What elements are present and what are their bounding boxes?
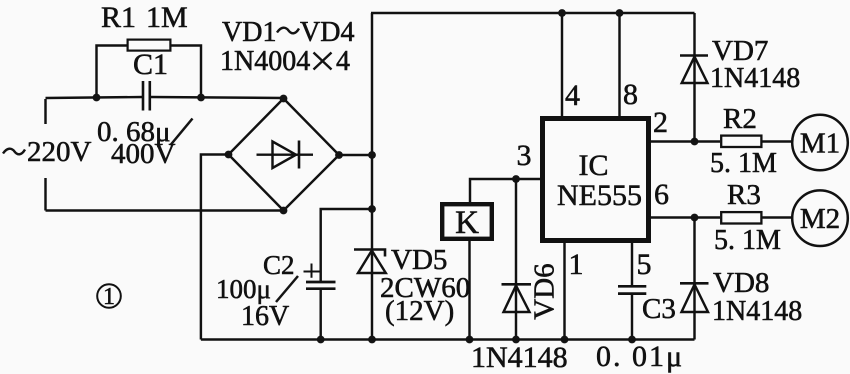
svg-text:1N4148: 1N4148 <box>710 63 800 94</box>
zener diode VD5 triangle <box>358 251 386 274</box>
node C2 at rail <box>317 336 325 344</box>
svg-text:4: 4 <box>565 79 580 112</box>
diode VD7 cathode bar <box>680 54 708 57</box>
wire pin 8 <box>618 13 620 116</box>
svg-text:5. 1M: 5. 1M <box>710 148 777 179</box>
wire ground rail <box>201 338 695 340</box>
bridge inner diode lead <box>257 153 314 155</box>
svg-text:6: 6 <box>654 178 669 211</box>
capacitor C1 <box>143 81 150 111</box>
svg-text:1: 1 <box>569 248 584 281</box>
node main vertical at bridge <box>368 151 376 159</box>
svg-text:M2: M2 <box>800 203 840 235</box>
wire AC bottom to bridge bottom vertex <box>46 209 284 211</box>
node pin 4 at rail <box>558 9 566 17</box>
label multiply sign <box>314 53 332 70</box>
zener diode VD5 cathode bar <box>354 250 385 257</box>
wire main vertical +12V line <box>371 13 373 340</box>
node VD7 at pin2 wire <box>691 138 699 146</box>
resistor R1 <box>128 40 171 51</box>
wire C3 bottom to rail <box>631 295 633 340</box>
svg-text:0. 01μ: 0. 01μ <box>596 340 684 373</box>
wire AC left terminal lower segment <box>44 178 46 211</box>
wire K to ground rail <box>468 239 470 340</box>
motor M1 circle <box>792 115 848 171</box>
wire AC top from left terminal to C1 <box>46 97 144 124</box>
wire pin 5 to C3 <box>631 243 633 285</box>
svg-text:NE555: NE555 <box>557 179 642 212</box>
svg-text:5: 5 <box>637 248 652 281</box>
svg-text:400V: 400V <box>111 138 176 170</box>
svg-text:1N4148: 1N4148 <box>471 341 568 374</box>
node bridge right vertex <box>335 151 343 159</box>
wire pin 6 to R3 <box>648 216 720 218</box>
wire pin 4 <box>561 13 563 116</box>
figure number circle <box>97 284 121 308</box>
svg-text:4: 4 <box>336 46 350 77</box>
switch K box <box>442 204 492 239</box>
label slash of 100u <box>276 276 298 302</box>
svg-text:1N4004: 1N4004 <box>220 46 310 77</box>
svg-text:5. 1M: 5. 1M <box>714 225 781 256</box>
node main vertical at rail <box>368 336 376 344</box>
svg-text:1N4148: 1N4148 <box>712 296 802 327</box>
capacitor C2 plates <box>306 282 336 289</box>
diode VD8 cathode bar <box>680 282 709 285</box>
node junction C1 right <box>197 94 205 102</box>
diode VD6 triangle <box>504 286 530 313</box>
node bridge left vertex <box>225 151 233 159</box>
wire C1 right plate to bridge top vertex <box>150 97 284 98</box>
diode VD8 triangle <box>682 285 709 313</box>
svg-text:1: 1 <box>103 284 115 310</box>
C2 plus sign <box>304 264 320 278</box>
node bridge top vertex <box>280 95 288 103</box>
node VD6 at pin3 wire <box>512 175 520 183</box>
svg-text:R2: R2 <box>723 103 757 135</box>
wire VD8 vertical <box>693 218 695 340</box>
svg-text:2: 2 <box>653 106 668 139</box>
wire VD6 vertical <box>515 179 517 340</box>
node C3 at rail <box>628 336 636 344</box>
svg-text:(12V): (12V) <box>385 295 454 327</box>
node K at rail <box>466 336 474 344</box>
svg-text:VD4: VD4 <box>300 17 354 48</box>
wire top supply rail <box>371 12 695 14</box>
svg-text:VD6: VD6 <box>529 263 561 319</box>
node VD8 at pin6 wire <box>691 214 699 222</box>
node VD6 at rail <box>512 336 520 344</box>
wire VD7 vertical <box>693 13 695 142</box>
bridge rectifier VD1-VD4 diamond <box>229 99 340 211</box>
svg-text:IC: IC <box>579 149 609 182</box>
node junction C1 left <box>93 94 101 102</box>
svg-text:VD8: VD8 <box>713 267 769 299</box>
op IC NE555 box U1 <box>543 119 649 241</box>
wire pin 3 <box>470 179 540 203</box>
svg-text:K: K <box>455 205 479 241</box>
svg-text:1M: 1M <box>146 1 188 34</box>
wire R2 to M1 <box>763 140 793 142</box>
svg-text:C3: C3 <box>642 293 676 325</box>
bridge inner diode cathode bar <box>298 141 301 169</box>
diode VD6 cathode bar <box>502 283 532 286</box>
svg-text:R1: R1 <box>101 1 136 34</box>
wire pin 2 to R2 <box>648 140 720 142</box>
node pin1 at rail <box>561 336 569 344</box>
capacitor C3 plates <box>618 286 646 293</box>
svg-text:M1: M1 <box>800 128 840 160</box>
node main vertical at C2 branch <box>368 205 376 213</box>
svg-text:16V: 16V <box>241 301 289 332</box>
wire bridge minus to ground rail <box>201 155 229 340</box>
label slash of 0.68u <box>171 119 193 146</box>
diode VD7 triangle <box>682 57 708 83</box>
node bridge bottom vertex <box>280 207 288 215</box>
wire R3 to M2 <box>763 216 793 218</box>
resistor R3 <box>721 212 761 223</box>
svg-text:8: 8 <box>623 78 638 111</box>
wire R1 right stub <box>170 46 201 98</box>
svg-text:R3: R3 <box>727 179 761 211</box>
svg-text:3: 3 <box>517 139 532 172</box>
svg-text:100μ: 100μ <box>216 274 271 304</box>
wire C2 branch horizontal <box>321 209 372 281</box>
svg-text:VD1: VD1 <box>222 17 276 48</box>
label ~220V tilde <box>3 149 25 155</box>
node pin 8 at rail <box>616 9 624 17</box>
label tilde <box>277 28 299 34</box>
motor M2 circle <box>792 190 848 246</box>
wire R1 left stub <box>97 46 128 98</box>
wire bridge plus to main vertical <box>339 154 372 156</box>
svg-text:C1: C1 <box>133 48 168 81</box>
resistor R2 <box>721 136 761 147</box>
wire pin 1 to ground rail <box>563 243 565 340</box>
wire C2 bottom to rail <box>319 290 321 340</box>
bridge inner diode triangle <box>273 142 297 169</box>
svg-text:220V: 220V <box>27 136 92 168</box>
